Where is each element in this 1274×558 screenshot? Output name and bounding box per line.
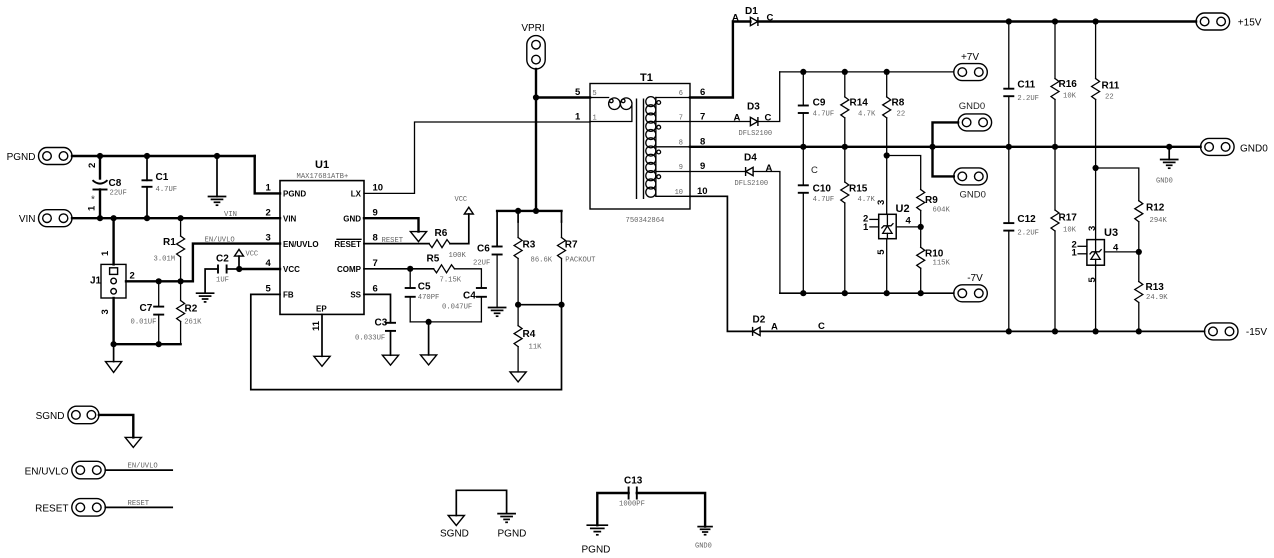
svg-text:PACKOUT: PACKOUT <box>565 257 596 265</box>
resistor R5 <box>427 254 462 285</box>
resistor R1 <box>154 218 185 281</box>
op-amp U1 MAX17681ATB+ body <box>280 159 364 314</box>
node R9/R10/U2 pin4 <box>918 224 924 230</box>
svg-text:7.15K: 7.15K <box>440 277 462 285</box>
capacitor C2 <box>205 254 239 293</box>
svg-text:VIN: VIN <box>224 211 237 219</box>
node -7V/R15 <box>842 290 848 296</box>
svg-text:U2: U2 <box>896 203 910 215</box>
connector VIN (J) <box>19 210 72 227</box>
wire C13 right to GND0 <box>637 493 705 527</box>
svg-text:R6: R6 <box>435 228 448 239</box>
svg-text:D4: D4 <box>744 153 757 164</box>
wire GND0 rail (T1 pin 8) <box>690 146 1201 148</box>
svg-text:RESET: RESET <box>128 500 150 508</box>
svg-text:1000PF: 1000PF <box>619 501 645 509</box>
svg-text:A: A <box>732 13 739 24</box>
connector GND0 right (J) <box>1201 138 1269 155</box>
resistor R2 <box>177 281 203 344</box>
diode D4 DFLS2100 <box>735 153 773 189</box>
svg-text:RESET: RESET <box>35 504 68 515</box>
capacitor C1 <box>142 156 178 218</box>
connector +7V (J) <box>954 52 988 81</box>
capacitor C5 <box>405 269 440 322</box>
wire SGND-PGND tie <box>456 490 506 515</box>
resistor R4 <box>514 305 542 372</box>
resistor R13 <box>1135 252 1168 332</box>
wire U1 pin 9 GND <box>364 218 419 231</box>
svg-text:SS: SS <box>350 291 361 300</box>
svg-text:GND0: GND0 <box>960 190 986 201</box>
svg-text:1: 1 <box>575 112 581 123</box>
connector -15V (J) <box>1205 323 1268 340</box>
resistor R17 <box>1051 147 1077 332</box>
node +7V/C9 <box>800 69 806 75</box>
svg-text:R16: R16 <box>1059 79 1078 90</box>
svg-text:8: 8 <box>679 139 683 147</box>
wire U1 pin 10 LX to T1 pin 1 <box>364 122 590 193</box>
wire +15V top rail <box>758 20 1196 22</box>
node -15V/R17 <box>1052 328 1058 334</box>
resistor R7 <box>558 211 597 305</box>
diode D3 DFLS2100 <box>734 102 773 139</box>
ground triangle SGND (tie) <box>448 516 464 526</box>
svg-text:470PF: 470PF <box>418 294 440 302</box>
connector VPRI (J) <box>521 23 545 69</box>
node R7/FB junction <box>558 302 564 308</box>
resistor R9 <box>917 190 951 227</box>
ground triangle at pin 9 <box>410 232 426 242</box>
node -15V/R13 <box>1136 328 1142 334</box>
wire FB loop (pin 5 around to R3/R7 bottom) <box>251 294 562 389</box>
svg-text:9: 9 <box>679 164 683 172</box>
svg-text:C5: C5 <box>418 282 431 293</box>
ground earth below C2 <box>197 293 214 302</box>
svg-text:VIN: VIN <box>283 214 297 223</box>
wire U3 pin 4 to R12/R13 node <box>1104 251 1138 253</box>
wire U1 pin 6 SS to C3 <box>364 294 391 322</box>
svg-text:86.6K: 86.6K <box>531 257 553 265</box>
svg-text:9: 9 <box>373 207 378 218</box>
wire C5/C4 bottom rail <box>410 321 481 323</box>
svg-text:100K: 100K <box>449 252 467 260</box>
transformer T1 750342864 <box>590 72 690 225</box>
wire T1 pin 10 down to D2 <box>690 196 753 331</box>
wire D4 to -7V rail <box>753 172 780 294</box>
svg-text:MAX17681ATB+: MAX17681ATB+ <box>297 173 349 181</box>
wire PGND rail to U1 pin 1 <box>255 156 280 193</box>
wire U1 pin 8 RESET <box>364 243 429 245</box>
svg-text:GND: GND <box>343 214 361 223</box>
svg-text:C11: C11 <box>1017 80 1035 91</box>
svg-text:10: 10 <box>697 186 708 197</box>
svg-text:C3: C3 <box>375 318 388 329</box>
svg-text:GND0: GND0 <box>959 101 985 112</box>
svg-text:3.01M: 3.01M <box>154 256 176 264</box>
capacitor C12 <box>1003 147 1039 332</box>
svg-text:A: A <box>766 163 773 174</box>
capacitor C13 <box>619 476 645 509</box>
svg-text:COMP: COMP <box>337 265 362 274</box>
wire T1 pin 5 <box>536 96 590 98</box>
svg-text:R5: R5 <box>427 254 440 265</box>
svg-text:1: 1 <box>100 250 111 256</box>
svg-text:J1: J1 <box>90 276 102 287</box>
node C7 junction <box>156 278 162 284</box>
svg-text:R4: R4 <box>523 329 536 340</box>
svg-text:SGND: SGND <box>36 411 65 422</box>
svg-text:R12: R12 <box>1146 203 1165 214</box>
svg-text:115K: 115K <box>933 260 951 268</box>
node VIN/R1 junction <box>178 215 184 221</box>
svg-text:C10: C10 <box>813 184 832 195</box>
svg-text:-7V: -7V <box>967 273 983 284</box>
svg-text:6: 6 <box>679 90 683 98</box>
connector +15V (J) <box>1196 13 1262 30</box>
resistor R3 <box>514 211 553 305</box>
shunt regulator U3 <box>1072 226 1120 283</box>
svg-text:GND0: GND0 <box>1156 178 1173 186</box>
wire D3 to +7V rail <box>758 72 780 122</box>
svg-text:VCC: VCC <box>455 196 468 204</box>
svg-text:0.033UF: 0.033UF <box>355 335 385 343</box>
ground earth GND0 below C13 <box>698 527 712 535</box>
shunt regulator U2 <box>863 200 912 255</box>
svg-text:U3: U3 <box>1104 227 1118 239</box>
ground SGND triangle below J1 <box>106 344 122 372</box>
svg-text:R17: R17 <box>1059 213 1078 224</box>
capacitor C10 <box>798 147 834 293</box>
wire VPRI down to T1 pin 5 <box>535 69 537 98</box>
svg-text:C6: C6 <box>477 244 490 255</box>
capacitor C4 <box>442 288 487 322</box>
wire T1 pin 6 up to D1 <box>690 22 750 98</box>
node GND0 connectors <box>929 144 935 150</box>
svg-text:22: 22 <box>897 111 906 119</box>
svg-text:EP: EP <box>316 305 327 314</box>
svg-text:C13: C13 <box>624 476 643 487</box>
svg-text:VIN: VIN <box>19 214 36 225</box>
ground triangle below R4 <box>510 372 526 382</box>
power VCC arrow at R6 <box>455 196 474 214</box>
node R8/R9 branch <box>884 152 890 158</box>
wire C13 left to PGND <box>597 493 628 525</box>
svg-text:0.01UF: 0.01UF <box>131 319 157 327</box>
capacitor C11 <box>1003 22 1039 147</box>
svg-text:D2: D2 <box>753 315 766 326</box>
svg-text:*: * <box>91 195 95 206</box>
svg-text:R8: R8 <box>892 98 905 109</box>
resistor R12 <box>1135 201 1168 252</box>
connector SGND (J) <box>36 406 99 424</box>
svg-text:C9: C9 <box>813 98 826 109</box>
diode D2 <box>753 315 826 336</box>
svg-text:VPRI: VPRI <box>521 23 544 34</box>
svg-text:8: 8 <box>373 233 378 244</box>
svg-text:3: 3 <box>100 309 111 314</box>
svg-text:-15V: -15V <box>1246 327 1267 338</box>
capacitor C9 <box>798 72 834 147</box>
wire R8 branch to R9 <box>887 156 921 190</box>
svg-text:T1: T1 <box>640 72 653 84</box>
node -7V/C10 <box>800 290 806 296</box>
svg-text:R15: R15 <box>849 184 868 195</box>
node VIN/J1 junction <box>111 215 117 221</box>
svg-text:9: 9 <box>700 161 705 172</box>
wire bottom of J1 section <box>114 343 181 345</box>
svg-text:PGND: PGND <box>283 189 306 198</box>
node COMP/C5 junction <box>407 266 413 272</box>
node R12/R13/U3 pin4 <box>1136 249 1142 255</box>
diode D1 <box>732 6 774 26</box>
wire U2 pin 5 down <box>886 239 888 294</box>
wire gnd stub <box>428 322 430 355</box>
svg-text:4.7K: 4.7K <box>858 196 876 204</box>
wire EN/UVLO net (U1 pin3 to J1 pin2 row) <box>126 244 280 282</box>
connector J1 <box>90 250 135 315</box>
wire VPRI down to R3/R7 rail <box>535 98 537 211</box>
connector PGND (J) <box>7 148 72 165</box>
wire VIN rail to U1 pin 2 <box>72 217 280 219</box>
svg-text:10: 10 <box>373 182 384 193</box>
resistor R15 <box>841 147 876 293</box>
wire +7V rail <box>780 71 954 73</box>
node PGND/gnd junction <box>214 153 220 159</box>
svg-text:R2: R2 <box>185 304 198 315</box>
svg-text:R13: R13 <box>1146 282 1165 293</box>
node PGND/C1 junction <box>144 153 150 159</box>
svg-text:D1: D1 <box>745 6 758 17</box>
svg-text:PGND: PGND <box>582 545 611 556</box>
svg-text:FB: FB <box>283 291 294 300</box>
wire RESET stub <box>105 506 172 508</box>
svg-text:DFLS2100: DFLS2100 <box>735 180 769 188</box>
ground triangle below C5/C4 <box>421 355 437 365</box>
svg-text:A: A <box>734 113 741 124</box>
svg-text:11K: 11K <box>529 344 543 352</box>
node VIN/C8 junction <box>97 215 103 221</box>
node R11/R12 branch <box>1093 165 1099 171</box>
connector GND0 upper (J) <box>958 101 992 131</box>
svg-text:EN/UVLO: EN/UVLO <box>205 237 235 245</box>
node GND0/C11 <box>1006 144 1012 150</box>
wire J1 pin 3 down <box>112 298 114 344</box>
svg-text:GND0: GND0 <box>1240 144 1268 155</box>
svg-text:EN/UVLO: EN/UVLO <box>25 467 69 478</box>
svg-text:24.9K: 24.9K <box>1146 294 1168 302</box>
svg-text:22: 22 <box>1105 94 1114 102</box>
ground earth PGND (tie) <box>498 514 515 523</box>
wire -15V rail <box>760 330 1204 332</box>
svg-text:C12: C12 <box>1017 214 1036 225</box>
wire R3/R7 bottom rail <box>518 304 561 306</box>
svg-text:C: C <box>818 321 825 332</box>
node VCC/C2 junction <box>236 266 242 272</box>
svg-text:7: 7 <box>373 258 378 269</box>
node R1/R2 junction <box>178 278 184 284</box>
connector GND0 lower (J) <box>954 168 988 201</box>
svg-text:4: 4 <box>906 215 912 226</box>
wire U2 pin 4 to R9/R10 node <box>896 226 921 228</box>
svg-text:R14: R14 <box>850 98 869 109</box>
node GND0/C9 <box>800 144 806 150</box>
wire U3 pin 5 down <box>1095 265 1097 331</box>
wire EP pin 11 <box>321 314 323 356</box>
svg-text:750342864: 750342864 <box>626 217 665 225</box>
svg-text:C7: C7 <box>140 303 153 314</box>
wire T1 pin 9 to D4 <box>690 171 746 173</box>
wire PGND top rail <box>72 155 255 157</box>
svg-text:22UF: 22UF <box>473 260 490 268</box>
svg-text:1: 1 <box>266 182 272 193</box>
svg-text:5: 5 <box>876 249 887 255</box>
svg-text:2: 2 <box>87 163 98 168</box>
svg-text:D3: D3 <box>747 102 760 113</box>
node R3 bottom junction <box>515 302 521 308</box>
ground triangle below EP <box>314 356 330 366</box>
node PGND/C8 junction <box>97 153 103 159</box>
resistor R14 <box>841 72 876 147</box>
svg-text:LX: LX <box>351 189 362 198</box>
node +7V/R14 <box>842 69 848 75</box>
wire EN/UVLO stub <box>105 469 172 471</box>
node -7V/R10 <box>918 290 924 296</box>
svg-text:261K: 261K <box>184 319 202 327</box>
svg-text:RESET: RESET <box>334 240 361 249</box>
node -15V/C12 <box>1006 328 1012 334</box>
resistor R16 <box>1051 22 1077 147</box>
svg-text:C4: C4 <box>463 291 476 302</box>
ground earth PGND below C13 <box>587 525 607 535</box>
svg-text:6: 6 <box>373 283 378 294</box>
capacitor C8 <box>87 156 127 218</box>
resistor R10 <box>917 227 951 293</box>
svg-text:R7: R7 <box>565 240 578 251</box>
svg-text:VCC: VCC <box>246 251 259 259</box>
svg-text:R10: R10 <box>925 249 944 260</box>
svg-text:5: 5 <box>575 87 581 98</box>
resistor R8 <box>883 72 905 214</box>
connector EN/UVLO (J) <box>25 461 106 479</box>
wire VCC to U1 pin 4 <box>239 268 280 270</box>
svg-text:C8: C8 <box>109 178 122 189</box>
node R3 top junction <box>515 208 521 214</box>
svg-text:4.7UF: 4.7UF <box>156 186 178 194</box>
svg-text:EN/UVLO: EN/UVLO <box>283 240 319 249</box>
wire R11 branch to R12 <box>1096 168 1139 201</box>
wire U1 pin 7 COMP <box>364 268 434 270</box>
wire R3/R7 top rail <box>497 210 561 212</box>
node +15V/R11 <box>1093 18 1099 24</box>
node VPRI junction <box>533 94 539 100</box>
svg-text:EN/UVLO: EN/UVLO <box>128 463 158 471</box>
svg-text:0.047UF: 0.047UF <box>442 304 472 312</box>
node C5-C4 gnd junction <box>426 319 432 325</box>
svg-text:5: 5 <box>593 90 597 98</box>
node +15V/R16 <box>1052 18 1058 24</box>
svg-text:DFLS2100: DFLS2100 <box>739 130 773 138</box>
node -15V/U3pin5 <box>1093 328 1099 334</box>
svg-text:+7V: +7V <box>961 52 979 63</box>
resistor R11 <box>1092 22 1120 240</box>
ground earth below C6 <box>489 308 506 317</box>
wire T1 pin 7 to D3 <box>690 121 750 123</box>
svg-text:11: 11 <box>311 320 322 331</box>
capacitor C7 <box>131 281 165 344</box>
svg-text:R9: R9 <box>925 195 938 206</box>
svg-text:R1: R1 <box>163 237 176 248</box>
resistor R6 <box>429 228 466 260</box>
svg-text:4.7UF: 4.7UF <box>813 196 835 204</box>
svg-text:22UF: 22UF <box>110 190 127 198</box>
wire R5 to C4 <box>455 269 482 288</box>
svg-text:+15V: +15V <box>1238 18 1262 29</box>
node +15V/C11 <box>1006 18 1012 24</box>
node bottom rail / C7 <box>156 341 162 347</box>
svg-text:C1: C1 <box>156 172 169 183</box>
svg-text:GND0: GND0 <box>695 543 712 551</box>
capacitor C6 <box>473 211 503 308</box>
wire SGND to ground <box>99 415 133 438</box>
svg-text:4.7UF: 4.7UF <box>813 111 835 119</box>
svg-text:C2: C2 <box>216 254 229 265</box>
svg-text:2.2UF: 2.2UF <box>1017 230 1039 238</box>
wire GND0 lower to rail <box>933 147 954 177</box>
ground triangle below C3 <box>382 355 398 365</box>
wire R6 to VCC <box>450 214 469 244</box>
wire GND0 upper to rail <box>933 122 959 146</box>
svg-text:RESET: RESET <box>382 237 404 245</box>
node -7V/U2pin5 <box>884 290 890 296</box>
svg-text:1: 1 <box>863 222 869 233</box>
node VIN/C1 junction <box>144 215 150 221</box>
svg-text:1UF: 1UF <box>216 277 229 285</box>
svg-text:PGND: PGND <box>7 152 36 163</box>
svg-text:5: 5 <box>1087 277 1098 283</box>
node GND0/R14 <box>842 144 848 150</box>
svg-text:3: 3 <box>876 200 887 205</box>
svg-text:4.7K: 4.7K <box>858 111 876 119</box>
svg-text:10K: 10K <box>1063 93 1077 101</box>
node VPRI/rail junction <box>533 208 539 214</box>
power VCC arrow at C2 <box>235 249 259 269</box>
svg-text:1: 1 <box>1072 248 1078 259</box>
svg-text:2: 2 <box>266 207 271 218</box>
wire -7V rail <box>780 292 954 294</box>
svg-text:VCC: VCC <box>283 265 300 274</box>
svg-text:10K: 10K <box>1063 227 1077 235</box>
node +7V/R8 <box>884 69 890 75</box>
connector -7V (J) <box>954 273 988 302</box>
svg-text:1: 1 <box>87 205 98 211</box>
svg-text:604K: 604K <box>933 207 951 215</box>
svg-text:2.2UF: 2.2UF <box>1017 95 1039 103</box>
svg-text:R11: R11 <box>1102 81 1120 92</box>
svg-text:R3: R3 <box>523 240 536 251</box>
svg-text:4: 4 <box>266 258 272 269</box>
svg-text:294K: 294K <box>1150 217 1168 225</box>
ground triangle SGND <box>125 437 141 447</box>
node bottom rail / gnd <box>111 341 117 347</box>
svg-text:2: 2 <box>130 270 135 281</box>
svg-text:SGND: SGND <box>440 529 469 540</box>
ground GND0 earth below rail <box>1156 147 1178 186</box>
capacitor C3 <box>355 318 396 356</box>
svg-text:U1: U1 <box>315 159 329 171</box>
wire VIN rail down to J1 pin 1 <box>112 218 114 264</box>
svg-text:3: 3 <box>1087 226 1098 231</box>
node GND0/earth <box>1166 144 1172 150</box>
